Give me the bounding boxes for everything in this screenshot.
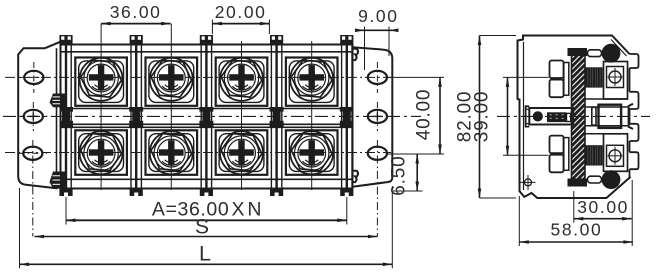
svg-text:6.50: 6.50 [388,156,409,196]
svg-text:S: S [195,216,209,239]
svg-text:9.00: 9.00 [358,6,398,26]
svg-text:36.00: 36.00 [110,2,162,22]
svg-text:58.00: 58.00 [551,220,603,240]
svg-text:39.00: 39.00 [472,91,493,143]
svg-text:20.00: 20.00 [215,2,267,22]
svg-text:30.00: 30.00 [577,197,629,217]
svg-text:L: L [199,242,211,266]
svg-text:40.00: 40.00 [413,89,434,141]
